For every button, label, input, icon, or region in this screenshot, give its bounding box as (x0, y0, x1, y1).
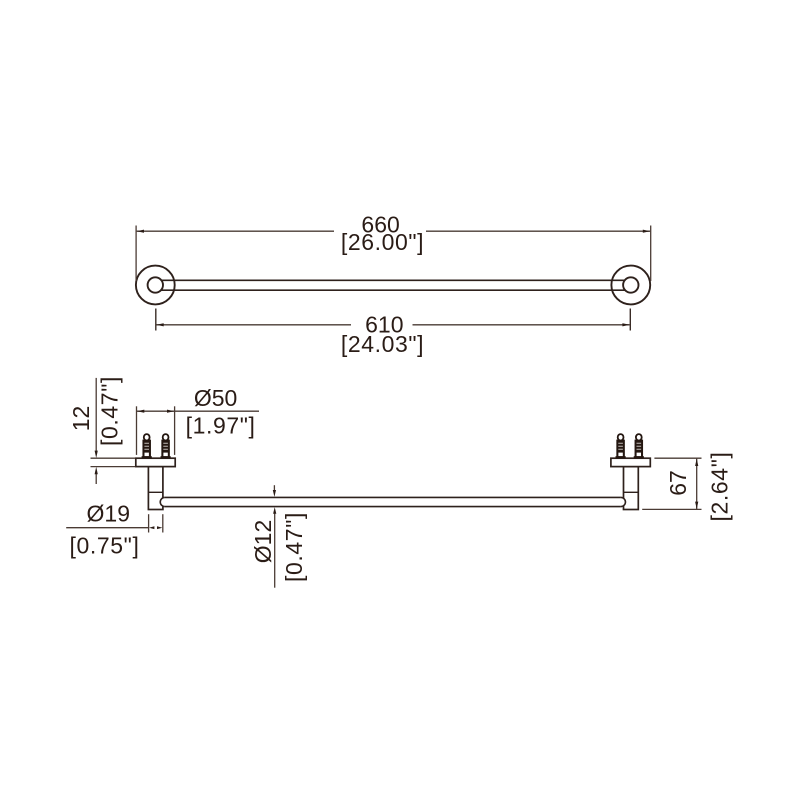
svg-text:12: 12 (68, 406, 94, 432)
dim 610 line left segment (156, 324, 351, 326)
left mount inner circle (148, 277, 163, 292)
dim 67 top arrow (695, 459, 698, 466)
dim 67 line (696, 459, 698, 509)
bar top edge (plan) (161, 279, 625, 281)
svg-text:[24.03"]: [24.03"] (341, 331, 424, 357)
svg-text:Ø50: Ø50 (194, 385, 237, 411)
dim O50 right extension line (174, 406, 176, 455)
dim 67 top extension line (654, 457, 701, 459)
svg-text:[0.47"]: [0.47"] (97, 376, 123, 446)
dim 12 upper line (95, 378, 97, 452)
dim 660 line left segment (137, 230, 334, 232)
dim 12 top extension line (91, 457, 136, 459)
dim 12 upper arrow (95, 451, 98, 458)
right post joint line (624, 491, 639, 493)
dim 660 right arrow (643, 230, 650, 233)
dim O12 lower line (274, 512, 276, 588)
dim 67 bottom arrow (695, 502, 698, 509)
dim 12 bottom extension line (91, 466, 136, 468)
svg-text:[1.97"]: [1.97"] (186, 413, 256, 439)
dim 610 left arrow (156, 323, 163, 326)
dim O19 right extension line (162, 514, 164, 532)
screw C (right mount, left) (616, 434, 626, 458)
svg-text:Ø12: Ø12 (250, 520, 276, 563)
svg-text:[0.47"]: [0.47"] (281, 512, 307, 582)
bar top edge (elevation) (165, 496, 621, 498)
dim O19 left arrow (149, 526, 154, 529)
right post cylinder (624, 467, 639, 510)
left post cylinder (148, 467, 163, 510)
svg-text:[2.64"]: [2.64"] (706, 452, 732, 522)
dim 660 left extension line (135, 226, 137, 282)
dim 67 bottom extension line (642, 508, 701, 510)
dim 610 left tick (155, 309, 157, 331)
dim O50 left extension line (136, 406, 138, 455)
dim O50 line (137, 410, 259, 412)
right mount outer circle (611, 266, 650, 305)
dim 12 lower arrow (95, 467, 98, 474)
left post joint line (148, 491, 163, 493)
dim O50 left arrow (137, 410, 144, 413)
screw B (left mount, right) (161, 434, 171, 458)
bar bottom edge (plan) (161, 289, 625, 291)
dim O19 right arrow (157, 526, 162, 529)
screw D (right mount, right) (634, 434, 644, 458)
dim 12 lower line (95, 473, 97, 484)
left flange plate (136, 458, 175, 466)
dim O50 right arrow (167, 410, 174, 413)
dim O12 upper line (273, 485, 275, 491)
dim 660 right extension line (650, 226, 652, 282)
right mount inner circle (623, 277, 638, 292)
svg-text:Ø19: Ø19 (87, 501, 130, 527)
bar bottom edge (elevation) (165, 506, 621, 508)
svg-text:67: 67 (665, 470, 691, 496)
svg-text:[0.75"]: [0.75"] (70, 533, 140, 559)
dim 660 left arrow (137, 230, 144, 233)
dim 610 right tick (629, 309, 631, 331)
svg-text:[26.00"]: [26.00"] (341, 229, 424, 255)
left mount outer circle (136, 266, 175, 305)
dim 660 line right segment (426, 230, 650, 232)
dim 610 right arrow (622, 323, 629, 326)
dim O19 leader line (66, 527, 148, 529)
right flange plate (611, 458, 650, 466)
bar left end cap (160, 497, 165, 506)
dim O12 lower arrow (273, 507, 276, 514)
dim 610 line right segment (413, 324, 630, 326)
screw A (left mount, left) (142, 434, 152, 458)
bar right end cap (621, 497, 626, 506)
dim O12 upper arrow (273, 490, 276, 497)
dim O19 left extension line (148, 514, 150, 532)
